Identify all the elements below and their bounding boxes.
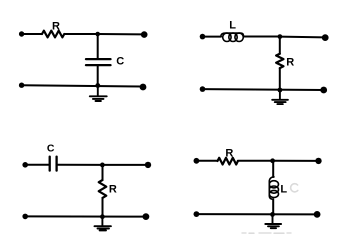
wire (238, 160, 273, 162)
svg-text:R: R (286, 57, 294, 69)
node terminal dot bottom-left (200, 86, 206, 92)
label ghost C watermark (291, 184, 298, 192)
wire (243, 36, 280, 38)
node junction dot bottom (278, 88, 283, 93)
node junction dot bottom (270, 212, 275, 217)
node junction dot top (100, 163, 105, 168)
node junction dot top (95, 32, 100, 37)
wire inductor top lead (272, 161, 274, 177)
wire (203, 36, 222, 38)
wire (58, 164, 103, 166)
wire bottom rail (203, 88, 324, 91)
svg-text:R: R (225, 147, 233, 159)
circuit 4: RL low-pass (bottom-right) (194, 147, 322, 233)
node IN3 terminal dot (22, 162, 28, 168)
wire inductor bottom lead (272, 199, 274, 214)
node terminal dot bottom-left (19, 83, 24, 88)
node terminal dot bottom-right (140, 84, 147, 91)
resistor R (99, 180, 107, 198)
node terminal dot bottom-left (194, 211, 200, 217)
node junction dot top (278, 34, 283, 39)
wire resistor top lead (102, 165, 104, 180)
node IN1 terminal dot (19, 31, 24, 36)
svg-text:L: L (229, 19, 236, 31)
ground (95, 217, 111, 231)
wire (102, 164, 147, 166)
capacitor C (50, 157, 57, 171)
wire bottom rail (25, 215, 146, 217)
resistor R (218, 158, 238, 165)
circuit 3: CR high-pass (bottom-left) (22, 143, 151, 231)
svg-text:L: L (280, 183, 287, 195)
wire (22, 33, 42, 35)
resistor R (42, 31, 64, 38)
ground (265, 214, 281, 228)
node OUT2 terminal dot (322, 34, 329, 41)
wire resistor bottom lead (279, 68, 281, 90)
wire bottom rail (22, 85, 143, 86)
node junction dot bottom (100, 214, 105, 219)
resistor R (276, 54, 283, 68)
node terminal dot bottom-right (314, 211, 321, 218)
circuit 2: LR low-pass (top-right) (200, 19, 329, 104)
wire capacitor bottom lead (97, 66, 99, 85)
svg-text:R: R (52, 21, 60, 33)
node terminal dot bottom-right (143, 213, 150, 220)
svg-text:R: R (109, 184, 117, 196)
wire bottom rail (196, 213, 317, 215)
capacitor C (86, 59, 111, 65)
wire (196, 160, 217, 162)
node terminal dot bottom-left (22, 214, 28, 220)
node junction dot bottom (95, 83, 100, 88)
inductor L (269, 177, 278, 199)
ground (272, 90, 288, 104)
wire resistor top lead (279, 37, 281, 54)
circuit 1: RC low-pass (top-left) (19, 21, 148, 101)
wire (25, 164, 48, 166)
node OUT3 terminal dot (145, 162, 151, 168)
node junction dot top (270, 158, 275, 163)
node OUT4 terminal dot (315, 158, 321, 164)
node IN4 terminal dot (194, 158, 200, 164)
wire (98, 33, 144, 35)
node OUT1 terminal dot (141, 31, 148, 38)
node terminal dot bottom-right (320, 87, 327, 94)
wire (273, 160, 319, 162)
wire (64, 33, 97, 35)
ground (90, 86, 107, 102)
wire (280, 36, 325, 39)
wire resistor bottom lead (102, 198, 104, 217)
svg-text:C: C (116, 55, 124, 67)
inductor L (221, 33, 244, 41)
wire watermark remnants (242, 232, 291, 234)
svg-text:C: C (47, 143, 55, 155)
wire capacitor top lead (97, 34, 99, 58)
node IN2 terminal dot (200, 34, 206, 40)
